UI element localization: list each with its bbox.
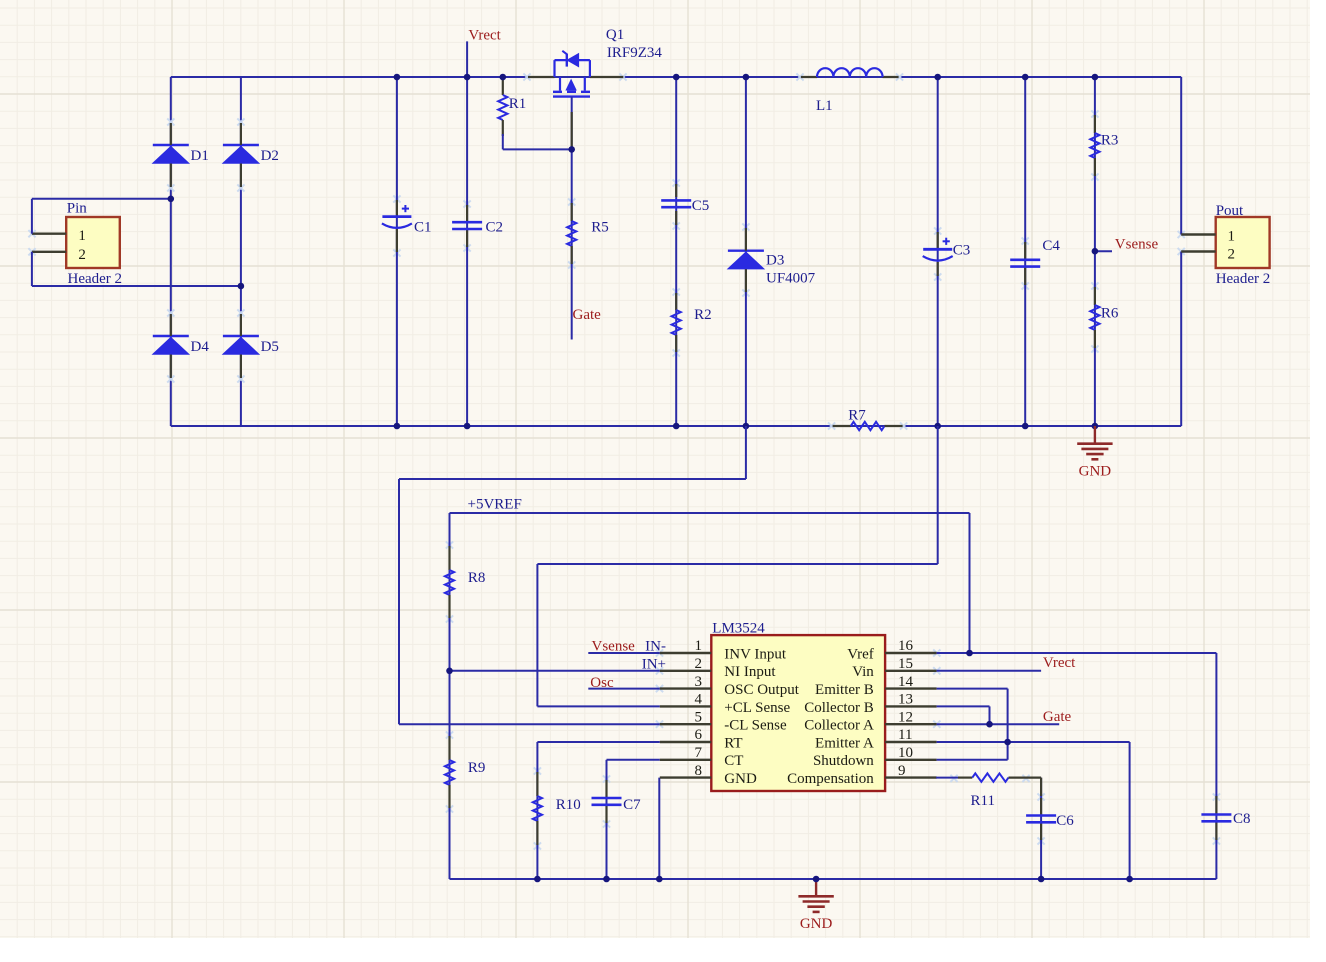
svg-text:INV Input: INV Input	[724, 646, 787, 662]
pin 8 (GND)	[660, 763, 757, 787]
resistor R9	[445, 736, 486, 808]
svg-text:Vin: Vin	[852, 664, 874, 680]
pin grip marks	[28, 73, 1220, 849]
svg-text:Vsense: Vsense	[1115, 237, 1159, 253]
node R3 top	[1092, 74, 1099, 81]
wire C4 column	[1024, 77, 1026, 426]
svg-text:D5: D5	[261, 339, 279, 355]
pin 11 (Emitter A)	[815, 727, 937, 751]
svg-text:D1: D1	[191, 148, 209, 164]
net label Gate (pin12)	[1043, 709, 1072, 725]
ground GND (control)	[798, 879, 833, 932]
svg-text:11: 11	[898, 727, 912, 743]
svg-text:UF4007: UF4007	[766, 271, 816, 287]
capacitor C3 (polarized)	[923, 232, 971, 276]
wire Vrect column (C2)	[466, 41, 468, 426]
header J-in box	[66, 217, 120, 268]
svg-text:12: 12	[898, 709, 913, 725]
svg-text:R10: R10	[556, 797, 581, 813]
svg-text:8: 8	[695, 763, 703, 779]
svg-text:C3: C3	[953, 243, 971, 259]
svg-text:C1: C1	[414, 220, 432, 236]
capacitor C2	[452, 205, 503, 247]
label Q1	[606, 27, 624, 43]
pin 14 (Emitter B)	[815, 674, 937, 698]
net label +5VREF	[468, 497, 522, 513]
node junction R1/gate	[568, 146, 575, 153]
label UF4007	[766, 271, 816, 287]
wire bottom power rail	[171, 425, 1181, 427]
wire pin1 stub	[588, 652, 660, 654]
svg-text:5: 5	[695, 709, 703, 725]
node C4 top	[1022, 74, 1029, 81]
diode D2	[223, 123, 279, 187]
resistor R1	[498, 77, 526, 136]
diode D3	[728, 228, 764, 292]
label IRF9Z34	[607, 45, 663, 61]
wire top rail to Pout pin1	[1180, 77, 1182, 235]
net label Gate (R5 column)	[573, 307, 602, 323]
svg-text:Vrect: Vrect	[1043, 655, 1076, 671]
svg-text:3: 3	[695, 674, 703, 690]
svg-text:GND: GND	[800, 916, 833, 932]
ic U1 LM3524 box	[711, 635, 885, 791]
svg-text:R9: R9	[468, 760, 486, 776]
wire Vsense stub	[1095, 250, 1112, 252]
svg-text:R11: R11	[971, 793, 995, 809]
pin 4 (+CL Sense)	[660, 692, 791, 716]
net label Osc	[590, 675, 614, 691]
resistor R7	[833, 408, 903, 431]
wire R11 to C6 column	[1040, 778, 1042, 879]
svg-text:IRF9Z34: IRF9Z34	[607, 45, 663, 61]
capacitor C1 (polarized)	[382, 200, 432, 252]
resistor R6	[1090, 287, 1119, 348]
pin 12 (Collector A)	[804, 709, 936, 733]
transistor Q1 IRF9Z34 (P-MOSFET)	[528, 51, 623, 97]
svg-text:Collector B: Collector B	[804, 700, 874, 716]
diode D1	[153, 123, 209, 187]
header J-in value Header 2	[68, 271, 123, 287]
node C2 top	[464, 74, 471, 81]
svg-text:+CL Sense: +CL Sense	[724, 700, 790, 716]
wire C3 column	[937, 77, 939, 426]
pin 16 (Vref)	[847, 638, 936, 662]
inductor L1	[801, 68, 899, 114]
label IN-	[645, 639, 666, 655]
header J-in designator Pin	[67, 201, 88, 217]
svg-text:14: 14	[898, 674, 914, 690]
svg-text:Emitter A: Emitter A	[815, 735, 874, 751]
resistor R10	[533, 772, 581, 845]
svg-text:R2: R2	[694, 307, 712, 323]
svg-text:R3: R3	[1101, 133, 1119, 149]
pin 3 (OSC Output)	[660, 674, 800, 698]
wire pin14 to pin10	[937, 689, 1008, 760]
svg-text:LM3524: LM3524	[712, 621, 765, 637]
node C7 bottom	[603, 876, 610, 883]
svg-text:Gate: Gate	[1043, 709, 1072, 725]
header Pout value Header 2	[1216, 271, 1271, 287]
svg-text:Pin: Pin	[67, 201, 88, 217]
wire C1 column	[396, 77, 398, 426]
svg-text:Pout: Pout	[1216, 203, 1244, 219]
wire pin11 (Emitter A) to ground rail	[937, 742, 1130, 879]
capacitor C4	[1010, 238, 1060, 285]
wire left bridge column (D1/D4)	[170, 77, 172, 426]
pin 1 (INV Input)	[660, 638, 787, 662]
svg-text:D4: D4	[191, 339, 210, 355]
svg-text:L1: L1	[816, 98, 833, 114]
capacitor C5	[661, 184, 709, 225]
svg-text:RT: RT	[724, 735, 742, 751]
ground GND (output)	[1077, 426, 1112, 480]
resistor R5	[567, 203, 609, 264]
wire control ground rail	[450, 878, 1217, 880]
pin 10 (Shutdown)	[813, 745, 937, 769]
svg-text:7: 7	[695, 745, 703, 761]
node C6 bottom	[1038, 876, 1045, 883]
pin 15 (Vin)	[852, 656, 936, 680]
svg-text:NI Input: NI Input	[724, 664, 776, 680]
node Vsense junction	[1092, 248, 1099, 255]
svg-text:GND: GND	[1079, 464, 1112, 480]
svg-text:Emitter B: Emitter B	[815, 682, 874, 698]
node C3 bottom	[934, 423, 941, 430]
svg-text:Vrect: Vrect	[468, 28, 501, 44]
svg-text:Vref: Vref	[847, 646, 874, 662]
net label Vrect (pin15)	[1043, 655, 1076, 671]
node D3 bottom	[743, 423, 750, 430]
svg-text:C4: C4	[1042, 238, 1060, 254]
wire header pin2 to D2 column	[32, 252, 241, 286]
pin 5 (-CL Sense)	[660, 709, 787, 733]
svg-text:D3: D3	[766, 253, 784, 269]
wire R3/R6 column	[1094, 77, 1096, 426]
net label Vsense (divider)	[1115, 237, 1159, 253]
header Pout box	[1216, 217, 1270, 268]
svg-text:GND: GND	[724, 771, 757, 787]
resistor R11	[936, 773, 1041, 809]
svg-text:C5: C5	[692, 198, 710, 214]
wire pin13 to pin12	[937, 706, 990, 724]
svg-text:2: 2	[78, 247, 86, 263]
diode D4	[153, 314, 210, 378]
wire Vref (pin16) to C8	[937, 652, 1217, 654]
net label Vrect (top)	[468, 28, 501, 44]
header Pout pin 2	[1181, 247, 1235, 263]
pin 13 (Collector B)	[804, 692, 936, 716]
capacitor C6	[1026, 798, 1074, 840]
node junction pin2/D2 column	[238, 283, 245, 290]
svg-text:-CL Sense: -CL Sense	[724, 718, 787, 734]
svg-text:15: 15	[898, 656, 913, 672]
wire pin2 (NI input) to divider	[450, 670, 660, 672]
svg-text:C6: C6	[1056, 813, 1074, 829]
wire pin3 stub	[588, 688, 660, 690]
pin 9 (Compensation)	[787, 763, 936, 787]
wire Q1 gate column	[571, 97, 573, 340]
capacitor C8	[1201, 796, 1250, 840]
svg-text:Vsense: Vsense	[592, 639, 636, 655]
wire R8/R9 column	[449, 513, 451, 879]
svg-text:Osc: Osc	[590, 675, 614, 691]
header Pout designator	[1216, 203, 1244, 219]
svg-text:Collector A: Collector A	[804, 718, 874, 734]
node junction pin14-10/pin11	[1004, 739, 1011, 746]
wire pin6 (RT) / R10 column	[537, 742, 659, 879]
label IN+	[642, 657, 666, 673]
svg-text:2: 2	[695, 656, 703, 672]
wire Vin (pin15) stub	[937, 670, 1042, 672]
node C4 bottom	[1022, 423, 1029, 430]
svg-text:D2: D2	[261, 148, 279, 164]
svg-text:Shutdown: Shutdown	[813, 753, 874, 769]
svg-text:R1: R1	[509, 96, 527, 112]
node junction pin1/D1 column	[168, 196, 175, 203]
node R2 bottom	[673, 423, 680, 430]
svg-text:C7: C7	[623, 797, 641, 813]
svg-text:1: 1	[1228, 229, 1236, 245]
node C2 bottom	[464, 423, 471, 430]
node C5 top	[673, 74, 680, 81]
resistor R8	[445, 546, 486, 618]
wire C3 column to +CL sense (pin4)	[537, 426, 937, 706]
node pin11 ground	[1126, 876, 1133, 883]
wire D3 column to -CL sense (pin5)	[399, 426, 746, 724]
svg-text:9: 9	[898, 763, 906, 779]
pin 7 (CT)	[660, 745, 744, 769]
node C3 top	[934, 74, 941, 81]
node R1 top	[500, 74, 507, 81]
svg-text:R5: R5	[591, 220, 609, 236]
wire second bridge column (D2/D5)	[240, 77, 242, 426]
svg-text:Header 2: Header 2	[68, 271, 123, 287]
capacitor C7	[592, 780, 642, 823]
wire Pout pin2 to bottom rail	[1180, 252, 1182, 427]
node junction R8/R9/pin2	[446, 668, 453, 675]
diode D5	[223, 314, 279, 378]
wire pin8 (GND) down	[658, 778, 660, 879]
svg-text:R8: R8	[468, 570, 486, 586]
label LM3524	[712, 621, 765, 637]
wire top rail	[171, 76, 1181, 78]
svg-text:Gate: Gate	[573, 307, 602, 323]
wire pin12 (Collector A) stub	[937, 723, 1060, 725]
wire D3 column	[745, 77, 747, 426]
node pin8 bottom	[656, 876, 663, 883]
svg-text:Header 2: Header 2	[1216, 271, 1271, 287]
node junction +5VREF/pin16	[966, 650, 973, 657]
wire +5VREF rail	[450, 513, 970, 653]
svg-text:16: 16	[898, 638, 914, 654]
node R6 bottom	[1092, 423, 1099, 430]
wire C8 column	[1215, 653, 1217, 879]
svg-text:1: 1	[695, 638, 703, 654]
node R10 bottom	[534, 876, 541, 883]
pin 6 (RT)	[660, 727, 743, 751]
svg-text:13: 13	[898, 692, 913, 708]
svg-text:+5VREF: +5VREF	[468, 497, 522, 513]
svg-text:R6: R6	[1101, 306, 1119, 322]
net label Vsense (pin1)	[592, 639, 636, 655]
svg-text:Q1: Q1	[606, 27, 624, 43]
wire C5/R2 column	[675, 77, 677, 426]
lead Q1 gate dark segment	[571, 112, 573, 148]
svg-text:C8: C8	[1233, 811, 1251, 827]
pin 2 (NI Input)	[660, 656, 777, 680]
wire header pin1 to D1 column	[32, 199, 171, 234]
node junction pin13/pin12	[986, 721, 993, 728]
svg-text:R7: R7	[848, 408, 866, 424]
svg-text:C2: C2	[486, 220, 504, 236]
node C1 top	[394, 74, 401, 81]
svg-text:10: 10	[898, 745, 913, 761]
wire R1 bottom to gate node	[503, 134, 572, 149]
node D3 top	[743, 74, 750, 81]
node ground junction	[813, 876, 820, 883]
wire pin7 (CT) / C7 column	[607, 760, 660, 879]
svg-text:2: 2	[1228, 247, 1236, 263]
svg-text:Compensation: Compensation	[787, 771, 874, 787]
svg-text:OSC Output: OSC Output	[724, 682, 799, 698]
header Pout pin 1	[1181, 229, 1235, 245]
node C1 bottom	[394, 423, 401, 430]
svg-text:CT: CT	[724, 753, 743, 769]
resistor R2	[672, 293, 712, 352]
svg-text:6: 6	[695, 727, 703, 743]
header J-in pin 1	[32, 228, 86, 244]
resistor R3	[1090, 115, 1118, 176]
header J-in pin 2	[32, 247, 86, 263]
svg-text:4: 4	[695, 692, 703, 708]
svg-text:1: 1	[78, 228, 86, 244]
label D3	[766, 253, 784, 269]
